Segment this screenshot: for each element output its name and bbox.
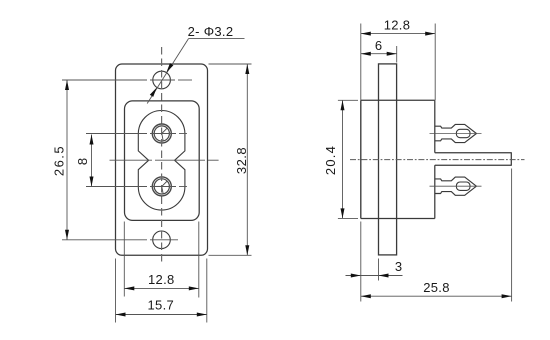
dimension 32.8 line: [246, 64, 248, 255]
center ground tab: [435, 153, 512, 166]
dimension 12.8 extension lines (side): [360, 24, 362, 101]
svg-text:32.8: 32.8: [234, 147, 249, 174]
terminal pin lower (side view): [435, 177, 476, 195]
svg-text:15.7: 15.7: [148, 298, 175, 313]
svg-text:3: 3: [395, 259, 402, 274]
svg-text:20.4: 20.4: [323, 145, 338, 175]
dimension 12.8 line (front): [124, 287, 199, 289]
figure-8 socket aperture: [138, 111, 185, 211]
dimension 15.7 line: [116, 314, 207, 316]
vertical centerline front view: [161, 47, 163, 265]
svg-text:2- Φ3.2: 2- Φ3.2: [188, 24, 234, 39]
svg-text:25.8: 25.8: [423, 280, 450, 295]
mounting hole bottom: [153, 231, 171, 249]
horizontal centerline side view: [350, 159, 525, 161]
svg-text:12.8: 12.8: [384, 18, 411, 33]
pin 2 (lower contact): [152, 177, 171, 196]
svg-text:12.8: 12.8: [148, 272, 175, 287]
inner recess rounded rectangle: [125, 101, 200, 220]
horizontal centerline mounting hole bottom: [62, 239, 147, 241]
dimension 12.8 line (side): [361, 33, 435, 35]
horizontal centerline waist: [110, 159, 153, 161]
dimension 25.8 extension line right: [511, 169, 513, 302]
dimension 3 extension lines: [360, 222, 362, 302]
svg-text:8: 8: [75, 158, 90, 165]
terminal pin upper (side view): [435, 124, 476, 142]
dimension 20.4 extension lines: [338, 99, 358, 101]
mounting hole top: [153, 71, 171, 89]
dimension 25.8 line: [361, 295, 512, 297]
dimension 12.8 extension lines (front): [123, 222, 125, 297]
svg-text:26.5: 26.5: [51, 145, 66, 176]
dimension 8 line: [91, 135, 93, 187]
horizontal centerline mounting hole top: [62, 79, 147, 81]
horizontal centerline pin 2: [86, 186, 147, 188]
pin 1 internal facet lines: [162, 128, 167, 133]
dimension 32.8 extension lines: [209, 63, 252, 65]
horizontal centerline pin 1: [86, 133, 147, 135]
dimension 20.4 line: [342, 100, 344, 218]
svg-text:6: 6: [375, 38, 382, 53]
pin 2 internal facet lines: [162, 181, 167, 186]
dimension 3 line: [346, 275, 403, 277]
leader line: [189, 38, 245, 40]
pin 1 (upper contact): [152, 124, 171, 143]
body (side view): [361, 99, 435, 101]
outer flange plate (front view): [116, 64, 208, 255]
dimension 15.7 extension lines: [115, 259, 117, 323]
dimension 6 extension line: [396, 46, 398, 63]
dimension 26.5 line: [66, 80, 68, 240]
mounting flange (side view): [379, 64, 397, 255]
dimension 6 line: [361, 53, 397, 55]
leader arrowheads on hole: [166, 63, 173, 73]
